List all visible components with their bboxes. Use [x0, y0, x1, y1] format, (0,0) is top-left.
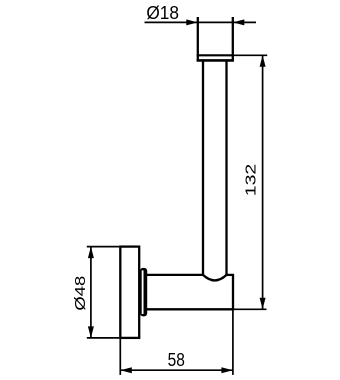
- arm top edge right: [227, 274, 235, 276]
- rod left edge: [202, 60, 204, 275]
- extension line 132 top: [234, 54, 267, 56]
- extension line 58 right: [232, 310, 234, 375]
- arrow 132 down: [260, 298, 266, 310]
- wall plate: [120, 247, 139, 338]
- arm bottom edge: [147, 308, 234, 310]
- cap collar line: [197, 54, 234, 56]
- arrow Ø18 right: [233, 19, 245, 25]
- extension line 132 bottom: [234, 308, 267, 310]
- dim line 58: [120, 369, 233, 371]
- svg-text:58: 58: [168, 349, 185, 370]
- arrow Ø48 down: [88, 326, 94, 338]
- arrow Ø18 left: [186, 19, 198, 25]
- arrow Ø48 up: [88, 247, 94, 259]
- cap left edge: [197, 17, 199, 62]
- dim line Ø18: [145, 21, 257, 23]
- dim line Ø48: [90, 247, 92, 338]
- extension line Ø48 bottom: [87, 337, 119, 339]
- svg-text:Ø18: Ø18: [146, 3, 179, 23]
- extension line 58 left: [119, 339, 121, 375]
- cap bottom edge: [197, 59, 234, 62]
- collar: [140, 268, 147, 317]
- arm right edge: [232, 275, 234, 309]
- svg-text:Ø48: Ø48: [72, 276, 89, 311]
- arrow 58 right: [221, 367, 233, 373]
- svg-text:132: 132: [243, 164, 260, 196]
- rod right edge: [225, 60, 227, 275]
- dim line 132: [262, 56, 264, 310]
- arrow 132 up: [260, 55, 266, 67]
- cap right edge: [232, 17, 234, 62]
- extension line Ø48 top: [87, 246, 119, 248]
- arrow 58 left: [120, 367, 132, 373]
- arm top edge left: [147, 274, 203, 276]
- rod-arm fillet curve: [203, 275, 227, 281]
